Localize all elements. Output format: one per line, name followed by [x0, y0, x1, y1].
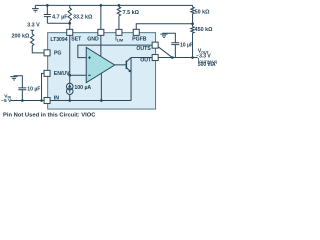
svg-text:10 µF: 10 µF [180, 43, 193, 49]
capacitor C3 10uF output [162, 33, 179, 57]
wire to SET pin [69, 23, 71, 29]
svg-text:GND: GND [87, 37, 99, 43]
svg-text:7.5 kΩ: 7.5 kΩ [123, 10, 140, 16]
wire amp output to base [115, 64, 127, 66]
node current source rail junction [68, 99, 71, 102]
node EN/UV tie junction [40, 99, 43, 102]
svg-text:33.2 kΩ: 33.2 kΩ [73, 15, 93, 21]
svg-text:PGFB: PGFB [132, 37, 147, 43]
node riser rail junction [100, 99, 103, 102]
port VOUT labels [196, 49, 218, 68]
svg-text:OUTS: OUTS [136, 46, 151, 52]
resistor R4 450k [191, 24, 194, 58]
resistor R5 200k PG pullup [31, 30, 45, 53]
resistor R1 33.2k SET [68, 5, 71, 23]
svg-text:IN: IN [54, 96, 59, 102]
op-amp A1 error amp [86, 47, 114, 82]
wire C1 to SET node [47, 22, 69, 24]
wire SET internal to current source [69, 35, 71, 83]
regulator U1 LT3094 block [48, 33, 156, 109]
node R2 rail junction [118, 4, 121, 7]
wire inv input [70, 74, 87, 76]
transistor Q1 pass npn [125, 61, 127, 69]
pin squares [44, 29, 158, 103]
wire GND pin internal to amp [100, 35, 102, 56]
wire PGFB to divider tap [136, 24, 192, 30]
wire internal negative rail [50, 100, 131, 102]
svg-text:SET: SET [71, 37, 82, 43]
wire OUT/emitter vertical [130, 58, 132, 101]
svg-text:4.7 µF: 4.7 µF [52, 15, 68, 21]
node GND pin rail junction [100, 4, 103, 7]
wire OUT to output node [158, 57, 197, 59]
wire amp negative supply riser [100, 73, 102, 100]
node output [191, 56, 194, 59]
svg-text:50 kΩ: 50 kΩ [195, 10, 210, 16]
wire GND pin to rail [100, 5, 102, 29]
svg-text:EN/UV: EN/UV [54, 71, 70, 77]
wire top ground rail [35, 4, 192, 6]
ground input cap [10, 77, 17, 80]
node cap C1 rail junction [46, 4, 49, 7]
wire VIN rail [11, 100, 44, 102]
svg-text:10 µF: 10 µF [27, 87, 40, 93]
node C2 junction [21, 99, 24, 102]
svg-text:−5 V: −5 V [1, 98, 12, 104]
ground output cap [160, 34, 167, 37]
wire OUTS feedback to noninv input [78, 45, 152, 58]
node output cap junction [171, 56, 174, 59]
resistor R2 7.5k ILIM [117, 5, 120, 29]
svg-text:450 kΩ: 450 kΩ [195, 27, 213, 33]
svg-text:100 µA: 100 µA [74, 85, 91, 91]
svg-text:200 kΩ: 200 kΩ [12, 34, 30, 40]
wire EN/UV tie to VIN [42, 73, 45, 100]
node inv input junction [68, 74, 71, 77]
node SET junction [68, 22, 71, 25]
svg-text:3.3 V: 3.3 V [27, 23, 40, 29]
svg-text:LT3094: LT3094 [50, 37, 67, 43]
ground top rail [32, 6, 39, 13]
node divider tap [191, 22, 194, 25]
svg-text:PG: PG [54, 50, 62, 56]
svg-text:Pin Not Used in this Circuit:: Pin Not Used in this Circuit: VIOC [3, 112, 96, 118]
wire OUTS diagonal [158, 47, 172, 58]
pin labels [54, 37, 152, 102]
current source I1 100uA [66, 83, 73, 100]
svg-text:OUT: OUT [140, 58, 152, 64]
svg-text:500 mA: 500 mA [198, 62, 216, 68]
resistor R3 50k [191, 5, 194, 23]
capacitor C1 4.7uF [44, 5, 51, 23]
capacitor C2 10uF input [14, 76, 27, 101]
